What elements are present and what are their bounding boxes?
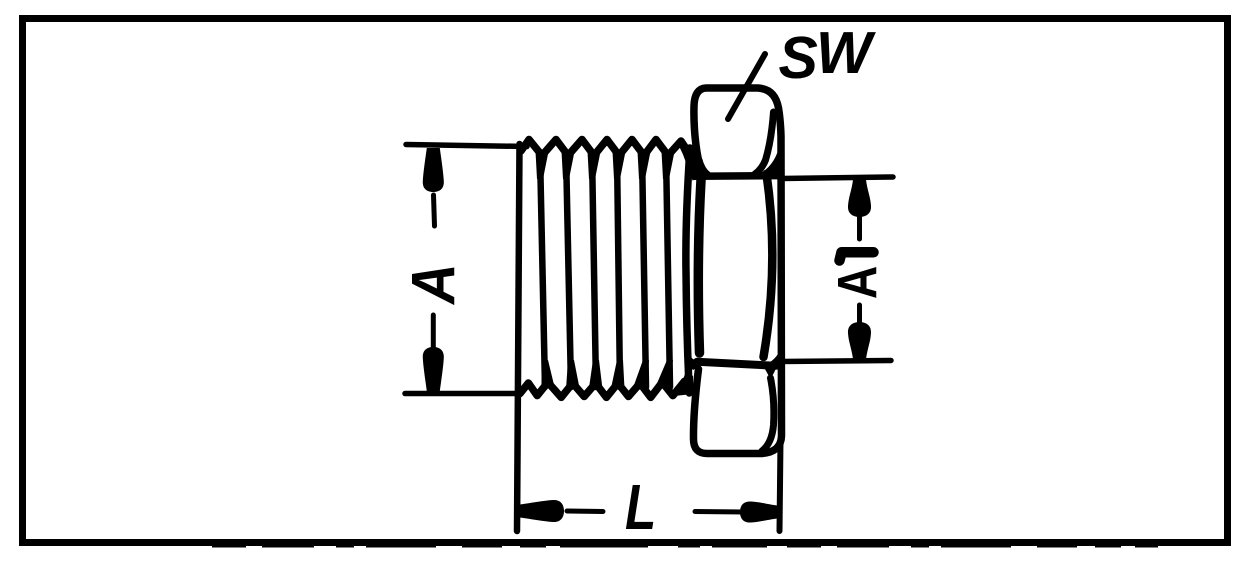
chamfer fill lower-right [763, 348, 781, 379]
hex middle face left chamfer arc [698, 180, 701, 353]
dimension A top arrow [423, 148, 444, 192]
hex top separator edge [695, 172, 776, 180]
thread flank line 5 [642, 153, 646, 387]
chamfer fill upper-right [761, 144, 780, 180]
chamfer fill upper-left [688, 144, 711, 181]
thread flank line 1 [540, 153, 545, 387]
dimension A1 bottom extension line [781, 361, 891, 362]
hex bottom separator edge [697, 362, 776, 366]
dimension A top extension line [406, 145, 527, 147]
thread root wedges top [536, 152, 549, 180]
dimension L right arrow [740, 501, 777, 522]
svg-text:A: A [400, 263, 468, 305]
svg-text:L: L [625, 473, 656, 544]
dimension L left arrow [520, 500, 564, 522]
thread bottom root zigzag [520, 381, 691, 397]
dimension A1 bottom arrow [848, 322, 871, 359]
thread flank line 4 [617, 153, 620, 387]
thread root wedges bottom [541, 360, 554, 387]
thread flank line 3 [592, 153, 596, 387]
hex top face right chamfer arc [755, 112, 774, 175]
dimension A dim line lower tail [431, 315, 436, 353]
thread-hex junction blob top [677, 143, 693, 170]
thread flank line 2 [566, 153, 571, 387]
dimension A bottom arrow [423, 347, 444, 391]
hex middle face right chamfer arc [764, 174, 773, 357]
dimension A1 dim line upper tail [857, 214, 862, 239]
svg-text:W: W [816, 20, 876, 86]
thread-hex junction blob bottom [674, 371, 693, 396]
thread top crest zigzag [521, 140, 691, 157]
dimension A1 label digit 1 [840, 252, 874, 260]
dimension A bottom extension line [405, 391, 521, 397]
dimension A1 dim line lower tail [857, 305, 862, 322]
dimension L right tail [695, 509, 744, 515]
dimension A1 top extension line [781, 177, 893, 179]
svg-text:S: S [779, 25, 818, 91]
thread left edge / L left extension line [517, 144, 520, 531]
thread flank line 6 [666, 153, 670, 387]
hex top face left inner edge [699, 160, 708, 175]
dimension L right extension line (hex edge continuation) [780, 440, 781, 531]
hex bottom face right chamfer arc [762, 378, 774, 451]
dimension A1 top arrow [848, 180, 871, 217]
svg-text:A: A [826, 266, 888, 299]
dimension A dim line upper tail [434, 195, 435, 226]
SW leader line [728, 54, 765, 119]
dimension L left tail [567, 509, 603, 515]
scan artifact dashes under bottom border [212, 546, 1158, 548]
chamfer fill lower-left [684, 349, 705, 370]
hex head silhouette [693, 88, 781, 454]
hex left silhouette line (middle) [686, 148, 690, 393]
